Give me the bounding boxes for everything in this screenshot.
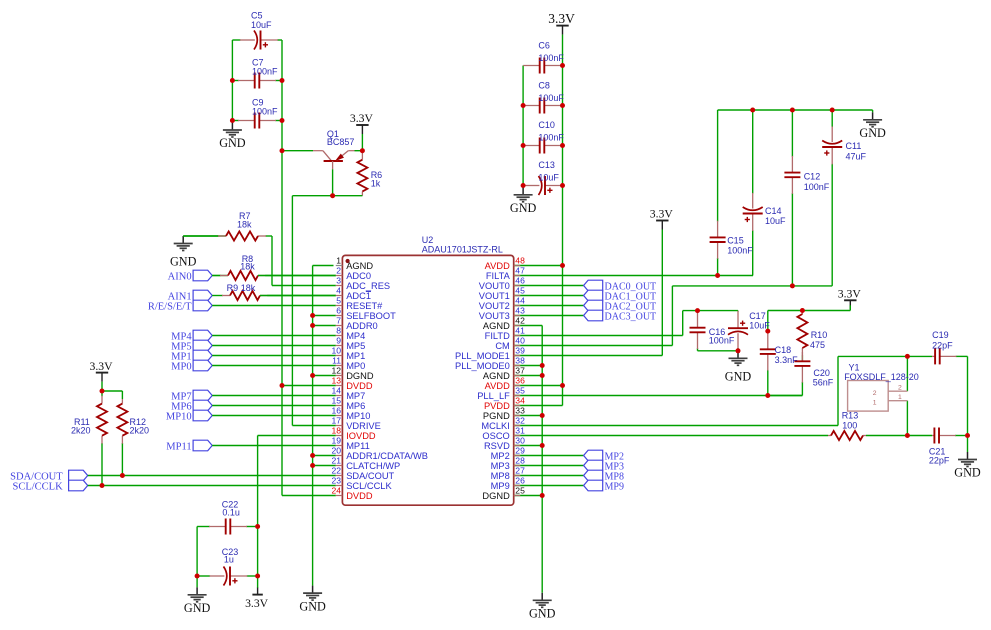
power 3.3V main <box>548 11 575 35</box>
ground bank <box>510 187 537 215</box>
junction <box>560 63 565 68</box>
wire DVDD rail <box>281 151 283 496</box>
power 3.3V pullups <box>89 360 113 382</box>
svg-text:5: 5 <box>336 296 341 306</box>
junction <box>230 78 235 83</box>
pin 1 AGND <box>336 256 374 271</box>
junction top rail <box>790 108 795 113</box>
svg-text:AIN0: AIN0 <box>168 271 192 282</box>
svg-text:10uF: 10uF <box>749 321 770 331</box>
svg-text:30: 30 <box>515 436 525 446</box>
svg-text:IOVDD: IOVDD <box>346 431 376 441</box>
pin 31 OSCO <box>482 426 525 441</box>
junction C23 right <box>255 574 260 579</box>
svg-text:VOUT3: VOUT3 <box>479 311 510 321</box>
svg-text:36: 36 <box>515 376 525 386</box>
pin 5 RESET# <box>336 296 383 311</box>
svg-text:10: 10 <box>331 346 341 356</box>
pin 33 PGND <box>483 406 525 421</box>
ground AGND chain <box>299 586 326 614</box>
svg-text:MP1: MP1 <box>346 351 365 361</box>
svg-text:3.3V: 3.3V <box>245 597 269 610</box>
wire pin36 AVDD <box>514 385 563 387</box>
capacitor C14 <box>743 110 763 276</box>
wire pin33 to bus <box>514 415 543 417</box>
pin 36 AVDD <box>485 376 525 391</box>
svg-text:4: 4 <box>336 286 341 296</box>
wire MP9 <box>514 485 584 487</box>
svg-text:MP8: MP8 <box>491 471 510 481</box>
pin 45 VOUT1 <box>479 286 525 301</box>
svg-text:100: 100 <box>842 420 857 430</box>
wire RESET to pin5 <box>212 305 336 307</box>
svg-text:100nF: 100nF <box>709 336 735 346</box>
junction C16 top <box>695 308 700 313</box>
power 3.3V bottom <box>245 588 269 611</box>
resistor R7 <box>183 231 272 242</box>
wire PLL_MODE1 vertical <box>661 230 663 356</box>
svg-text:44: 44 <box>515 296 525 306</box>
wire AGND bus <box>541 326 543 593</box>
ground top right <box>859 112 886 140</box>
wire FILTD top <box>683 310 738 312</box>
pin 27 MP8 <box>491 466 525 481</box>
svg-text:PLL_MODE1: PLL_MODE1 <box>455 351 510 361</box>
svg-text:R10: R10 <box>811 330 828 340</box>
svg-text:40: 40 <box>515 336 525 346</box>
svg-text:22pF: 22pF <box>929 456 950 466</box>
port MP1 <box>171 350 212 362</box>
port MP9 <box>584 480 624 492</box>
wire DAC0_OUT <box>514 285 584 287</box>
pin 43 VOUT3 <box>479 306 525 321</box>
svg-text:OSCO: OSCO <box>482 431 509 441</box>
wire C18 top <box>767 311 769 332</box>
pin 28 MP3 <box>491 456 525 471</box>
port MP5 <box>171 340 212 352</box>
wire to pin21 CLATCH <box>313 465 336 467</box>
junction AVDD pin48 <box>560 263 565 268</box>
crystal Y1 <box>848 381 908 412</box>
wire VDRIVE vertical <box>291 196 293 426</box>
wire pin30 to bus <box>514 445 543 447</box>
svg-text:CLATCH/WP: CLATCH/WP <box>346 461 400 471</box>
wire 3.3V stem <box>562 35 564 66</box>
svg-text:GND: GND <box>510 201 537 215</box>
svg-text:29: 29 <box>515 446 525 456</box>
svg-text:16: 16 <box>331 406 341 416</box>
wire to pin7 ADDR0 <box>313 325 336 327</box>
capacitor C22 <box>197 518 258 535</box>
power 3.3V R10 <box>838 288 862 310</box>
svg-text:22pF: 22pF <box>932 340 953 350</box>
junction crystal pin2 <box>905 354 910 359</box>
svg-text:43: 43 <box>515 306 525 316</box>
svg-text:C20: C20 <box>813 368 830 378</box>
pin 20 ADDR1/CDATA/WB <box>331 446 428 461</box>
svg-text:GND: GND <box>859 126 886 140</box>
resistor R8 <box>212 270 336 281</box>
svg-text:11: 11 <box>332 356 341 366</box>
junction PLL_LF C18 <box>765 393 770 398</box>
resistor R13 <box>828 430 866 441</box>
pin 37 AGND <box>483 366 525 381</box>
wire right rail to gnd <box>967 436 969 453</box>
svg-text:100nF: 100nF <box>538 132 564 142</box>
capacitor C6 <box>523 57 562 74</box>
wire 3.3V to Q1 emitter node <box>361 134 363 151</box>
pin 46 VOUT0 <box>479 276 525 291</box>
pin 18 IOVDD <box>331 426 375 441</box>
svg-text:1: 1 <box>898 394 902 401</box>
svg-text:2k20: 2k20 <box>130 425 150 435</box>
junction top rail <box>750 108 755 113</box>
wire MP11 to pin19 <box>212 445 336 447</box>
svg-text:MP10: MP10 <box>346 411 370 421</box>
svg-text:MP0: MP0 <box>346 361 365 371</box>
resistor R6 <box>357 151 368 196</box>
resistor R9 <box>212 290 336 301</box>
svg-text:18: 18 <box>331 426 341 436</box>
junction <box>560 183 565 188</box>
capacitor C21 <box>932 427 968 444</box>
junction pin30 <box>540 443 545 448</box>
pin 30 RSVD <box>484 436 525 451</box>
svg-text:0.1u: 0.1u <box>222 507 240 517</box>
port SDA/COUT <box>10 470 88 482</box>
junction C18 <box>765 329 770 334</box>
wire AVDD to pin34 <box>514 405 563 407</box>
pin 25 DGND <box>482 486 525 501</box>
pin 8 MP4 <box>336 326 366 341</box>
wire MP3 <box>514 465 584 467</box>
wire MP0 to pin11 <box>212 365 336 367</box>
wire pin48 AVDD <box>514 265 563 267</box>
junction R10 top <box>800 308 805 313</box>
svg-text:AVDD: AVDD <box>485 261 510 271</box>
capacitor C13 <box>523 176 562 195</box>
port MP3 <box>584 460 624 472</box>
svg-text:25: 25 <box>515 486 525 496</box>
wire Q1 bottom <box>292 195 362 197</box>
wire pullup top <box>102 390 122 392</box>
capacitor C12 <box>784 110 801 286</box>
port MP4 <box>171 330 212 342</box>
wire DAC3_OUT <box>514 315 584 317</box>
capacitor C20 <box>794 352 811 396</box>
junction <box>280 148 285 153</box>
svg-text:19: 19 <box>331 436 341 446</box>
svg-text:GND: GND <box>219 136 246 150</box>
svg-text:GND: GND <box>954 466 981 480</box>
pin 22 SDA/COUT <box>331 466 394 481</box>
wire VDRIVE to pin17 <box>292 425 335 427</box>
junction right rail <box>965 433 970 438</box>
svg-text:2: 2 <box>898 384 902 391</box>
wire MP7 to pin14 <box>212 395 336 397</box>
pin 39 PLL_MODE1 <box>455 346 525 361</box>
junction <box>280 78 285 83</box>
svg-text:MCLKI: MCLKI <box>481 421 509 431</box>
pin 4 ADC1 <box>336 286 371 301</box>
svg-text:RSVD: RSVD <box>484 441 510 451</box>
wire MCLKI <box>514 425 838 427</box>
capacitor C18 <box>759 331 776 395</box>
svg-text:GND: GND <box>725 369 752 383</box>
svg-text:48: 48 <box>515 256 525 266</box>
junction <box>560 143 565 148</box>
wire SDA to pin22 <box>88 475 336 477</box>
wire Q1 collector <box>282 150 313 152</box>
junction C17 bottom <box>736 348 741 353</box>
svg-text:GND: GND <box>299 599 326 613</box>
pin 32 MCLKI <box>481 416 525 431</box>
capacitor C8 <box>523 97 562 114</box>
svg-text:ADDR0: ADDR0 <box>346 321 378 331</box>
svg-text:42: 42 <box>515 316 525 326</box>
svg-text:GND: GND <box>170 254 197 268</box>
wire MP6 to pin15 <box>212 405 336 407</box>
junction <box>560 103 565 108</box>
svg-text:SDA/COUT: SDA/COUT <box>346 471 394 481</box>
junction C22 right <box>255 524 260 529</box>
svg-text:MP5: MP5 <box>346 341 365 351</box>
pin 16 MP10 <box>331 406 370 421</box>
svg-text:MP7: MP7 <box>346 391 365 401</box>
svg-text:100nF: 100nF <box>252 66 278 76</box>
wire CM vertical <box>671 286 673 346</box>
svg-text:33: 33 <box>515 406 525 416</box>
wire MP1 to pin10 <box>212 355 336 357</box>
pin 42 AGND <box>483 316 525 331</box>
svg-text:GND: GND <box>529 607 556 621</box>
wire crystal pin1 vertical <box>906 401 908 436</box>
svg-text:ADC0: ADC0 <box>346 271 371 281</box>
wire 3.3V stub R10 <box>849 305 851 310</box>
wire DAC2_OUT <box>514 305 584 307</box>
svg-text:32: 32 <box>515 416 525 426</box>
resistor R11 <box>96 391 107 486</box>
wire MP5 to pin9 <box>212 345 336 347</box>
wire R9 to pin4 <box>260 295 336 297</box>
wire pin1 AGND <box>313 265 334 267</box>
junction top rail <box>830 108 835 113</box>
pin 44 VOUT2 <box>479 296 525 311</box>
pin 21 CLATCH/WP <box>331 456 400 471</box>
svg-text:17: 17 <box>331 416 341 426</box>
svg-text:26: 26 <box>515 476 525 486</box>
wire Q1 base down <box>332 169 334 195</box>
wire crystal pin2 vertical <box>906 356 908 391</box>
svg-text:38: 38 <box>515 356 525 366</box>
capacitor C7 <box>232 72 282 89</box>
svg-text:18k: 18k <box>241 283 256 293</box>
wire R8 to pin2 <box>258 275 336 277</box>
svg-text:47uF: 47uF <box>846 152 867 162</box>
svg-text:47: 47 <box>515 266 525 276</box>
wire to pin20 ADDR1 <box>313 455 336 457</box>
pin 24 DVDD <box>331 486 372 501</box>
wire C16 bottom <box>698 350 739 352</box>
svg-text:C13: C13 <box>538 160 555 170</box>
svg-text:46: 46 <box>515 276 525 286</box>
wire to pin12 DGND <box>313 375 336 377</box>
ground C17 <box>725 351 752 384</box>
svg-text:VOUT0: VOUT0 <box>479 281 510 291</box>
svg-text:DVDD: DVDD <box>346 381 373 391</box>
svg-text:1: 1 <box>336 256 341 266</box>
junction R11 SCL <box>100 483 105 488</box>
svg-text:ADC_RES: ADC_RES <box>346 281 390 291</box>
svg-text:MP10: MP10 <box>166 411 192 422</box>
svg-text:3: 3 <box>336 276 341 286</box>
svg-text:10uF: 10uF <box>538 173 559 183</box>
svg-text:3.3V: 3.3V <box>650 208 674 221</box>
svg-text:AGND: AGND <box>483 371 510 381</box>
wire MCLKI vertical <box>837 356 839 425</box>
svg-text:R/E/S/E/T: R/E/S/E/T <box>148 301 192 312</box>
svg-text:8: 8 <box>336 326 341 336</box>
svg-text:3.3V: 3.3V <box>350 112 374 125</box>
port MP0 <box>171 360 212 372</box>
port MP2 <box>584 450 624 462</box>
port DAC1_OUT <box>584 290 657 302</box>
svg-text:24: 24 <box>331 486 341 496</box>
port AIN0 <box>168 270 213 282</box>
wire xtal right rail <box>967 356 969 435</box>
junction <box>521 103 526 108</box>
svg-text:1k: 1k <box>371 178 381 188</box>
svg-text:MP4: MP4 <box>346 331 365 341</box>
port DAC2_OUT <box>584 300 657 312</box>
svg-text:VOUT1: VOUT1 <box>479 291 510 301</box>
svg-text:C19: C19 <box>932 330 949 340</box>
junction <box>230 118 235 123</box>
svg-text:9: 9 <box>336 336 341 346</box>
pin 47 FILTA <box>486 266 525 281</box>
svg-text:C10: C10 <box>538 120 555 130</box>
port MP10 <box>166 410 212 422</box>
IC U2 pin1 marker <box>346 259 350 263</box>
junction pullup <box>100 389 105 394</box>
svg-text:C15: C15 <box>727 236 744 246</box>
wire OSCO <box>514 435 828 437</box>
port MP8 <box>584 470 624 482</box>
svg-text:Y1: Y1 <box>849 362 860 372</box>
wire CM <box>514 345 673 347</box>
svg-text:27: 27 <box>515 466 525 476</box>
svg-text:12: 12 <box>331 366 341 376</box>
power 3.3V Q1 <box>350 112 374 134</box>
wire DAC1_OUT <box>514 295 584 297</box>
capacitor C23 <box>197 567 258 586</box>
svg-text:ADDR1/CDATA/WB: ADDR1/CDATA/WB <box>346 451 428 461</box>
junction DVDD pin13 <box>280 383 285 388</box>
junction crystal pin1 <box>905 433 910 438</box>
svg-text:MP9: MP9 <box>605 481 624 492</box>
svg-text:100uF: 100uF <box>538 93 564 103</box>
junction pin21 <box>310 463 315 468</box>
svg-text:DVDD: DVDD <box>346 491 373 501</box>
wire gnd stub <box>872 110 874 112</box>
svg-text:2: 2 <box>336 266 341 276</box>
transistor Q1 <box>313 151 355 170</box>
svg-text:3.3V: 3.3V <box>89 360 113 373</box>
port MP6 <box>171 400 212 412</box>
wire pin38 to bus <box>514 365 543 367</box>
svg-text:MP0: MP0 <box>171 361 191 372</box>
port AIN1 <box>168 290 213 302</box>
svg-text:MP3: MP3 <box>491 461 510 471</box>
svg-text:23: 23 <box>331 476 341 486</box>
junction pin20 <box>310 453 315 458</box>
wire to pin6 SELFBOOT <box>313 315 336 317</box>
ground R7 <box>170 236 197 268</box>
svg-text:18k: 18k <box>240 262 255 272</box>
svg-text:22: 22 <box>331 466 341 476</box>
junction Q1 emitter <box>360 148 365 153</box>
pin 14 MP7 <box>331 386 365 401</box>
pin 38 PLL_MODE0 <box>455 356 525 371</box>
wire PLL_LF <box>514 395 803 397</box>
wire MP4 to pin8 <box>212 335 336 337</box>
svg-text:BC857: BC857 <box>327 137 355 147</box>
svg-text:21: 21 <box>331 456 341 466</box>
svg-text:475: 475 <box>810 340 825 350</box>
svg-text:AGND: AGND <box>346 261 373 271</box>
svg-text:ADAU1701JSTZ-RL: ADAU1701JSTZ-RL <box>422 244 503 254</box>
capacitor C16 <box>689 311 706 351</box>
wire AIN0 <box>212 275 228 277</box>
svg-text:3.3V: 3.3V <box>548 11 575 26</box>
svg-text:MP9: MP9 <box>491 481 510 491</box>
pin 34 PVDD <box>484 396 525 411</box>
svg-text:10uF: 10uF <box>251 20 272 30</box>
wire PLL_MODE1 <box>514 355 663 357</box>
svg-text:PLL_LF: PLL_LF <box>477 391 510 401</box>
wire MP2 <box>514 455 584 457</box>
port DAC3_OUT <box>584 310 657 322</box>
svg-text:CM: CM <box>495 341 509 351</box>
junction Q1 base <box>330 193 335 198</box>
resistor R12 <box>117 399 128 476</box>
svg-text:13: 13 <box>331 376 341 386</box>
junction pin25 <box>540 493 545 498</box>
capacitor C9 <box>232 112 282 129</box>
IC U2 body <box>342 255 513 505</box>
svg-text:100nF: 100nF <box>538 53 564 63</box>
junction C12 bottom <box>790 283 795 288</box>
pin 13 DVDD <box>331 376 372 391</box>
svg-text:MP11: MP11 <box>346 441 370 451</box>
svg-text:C11: C11 <box>846 141 862 151</box>
pin 2 ADC0 <box>336 266 371 281</box>
svg-text:14: 14 <box>331 386 341 396</box>
svg-text:C14: C14 <box>765 206 782 216</box>
svg-text:28: 28 <box>515 456 525 466</box>
svg-text:41: 41 <box>515 326 525 336</box>
pin 17 VDRIVE <box>331 416 380 431</box>
pin 23 SCL/CCLK <box>331 476 392 491</box>
pin 7 ADDR0 <box>336 316 378 331</box>
svg-text:C18: C18 <box>775 345 792 355</box>
wire DVDD to pin24 <box>282 495 336 497</box>
svg-text:RESET#: RESET# <box>346 301 383 311</box>
capacitor C15 <box>709 110 726 276</box>
junction C23 left <box>195 574 200 579</box>
pin 26 MP9 <box>491 476 525 491</box>
svg-text:31: 31 <box>515 426 525 436</box>
